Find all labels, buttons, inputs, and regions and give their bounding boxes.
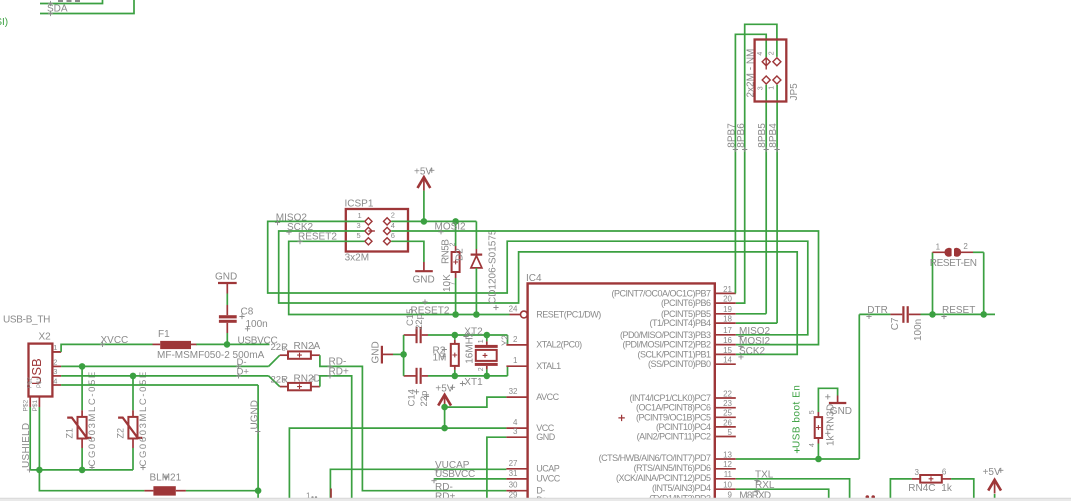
origin cross near RESET2 label — [422, 299, 427, 304]
svg-text:D-: D- — [536, 486, 545, 496]
wire Z2 bottom to USHIELD rail — [132, 448, 134, 470]
resistor RN5B top stub — [455, 246, 457, 252]
header JP5 body — [755, 40, 787, 102]
svg-text:DTR: DTR — [867, 305, 888, 316]
svg-text:6: 6 — [391, 231, 395, 240]
varistor Z1 top pin stub — [81, 410, 83, 417]
svg-text:SCK2: SCK2 — [739, 346, 766, 357]
svg-text:(PCINT6)PB6: (PCINT6)PB6 — [661, 298, 711, 308]
ground stub at RN3D — [837, 396, 839, 404]
IC4 pin 2 stub (XTAL2(PC0)) — [506, 344, 527, 346]
wire DTR to C7 — [859, 313, 890, 315]
svg-text:(SS/PCINT0)PB0: (SS/PCINT0)PB0 — [648, 359, 711, 369]
svg-text:24: 24 — [509, 305, 518, 314]
svg-text:8PB4: 8PB4 — [768, 123, 779, 148]
capacitor C8 top stub — [226, 305, 228, 315]
wire GND branch to crystal caps — [393, 353, 404, 355]
pad 3 of JP5 — [762, 76, 770, 84]
wire RD- from RN2A — [320, 355, 507, 491]
svg-text:8PB5: 8PB5 — [757, 123, 768, 148]
capacitor C7 right stub — [909, 313, 921, 315]
IC4 pin 21 stub ((PCINT7/OC0A/OC1C)PB7) — [715, 292, 736, 294]
resistor RN3D body — [815, 417, 822, 438]
wire RN3D bottom to DTR net — [817, 444, 819, 460]
label origin cross RESET2 — [297, 239, 302, 244]
wire Z1 bottom to USHIELD rail — [81, 448, 83, 470]
svg-text:RN3D: RN3D — [826, 404, 837, 431]
svg-text:1: 1 — [358, 211, 362, 220]
varistor Z1 bottom pin stub — [81, 439, 83, 449]
svg-text:1: 1 — [513, 356, 518, 365]
svg-text:2: 2 — [478, 367, 485, 371]
IC4 pin 16 stub ((PDI/MOSI/PCINT2)PB2) — [715, 344, 736, 346]
junction XT2 at R2 — [452, 332, 459, 339]
svg-text:16MHz: 16MHz — [465, 332, 476, 364]
svg-text:SDA: SDA — [47, 4, 68, 15]
svg-text:25: 25 — [723, 409, 732, 418]
svg-text:3x2M: 3x2M — [345, 252, 369, 263]
wire UGND from X2 pin4 — [61, 384, 258, 386]
svg-text:(PCINT10)PC4: (PCINT10)PC4 — [656, 422, 711, 432]
svg-text:100n: 100n — [913, 319, 924, 341]
origin cross C8 — [239, 314, 244, 319]
wire DTR riser up — [858, 314, 860, 459]
wire 8PB7 from pin21 to JP5 pad4 — [735, 34, 766, 293]
svg-text:11: 11 — [724, 470, 733, 479]
svg-text:RESET: RESET — [942, 305, 975, 316]
wire D+ to Z2 top — [132, 376, 134, 410]
svg-text:1: 1 — [478, 339, 485, 343]
label origin cross UGND — [255, 429, 260, 434]
wire RN4C right leg — [951, 479, 974, 501]
label origin cross USHIELD — [27, 467, 32, 472]
wire XT2 to R2 — [454, 335, 456, 340]
junction XT1 at crystal — [484, 373, 491, 380]
svg-text:UCAP: UCAP — [536, 464, 560, 474]
wire XT2 to crystal pin1 — [486, 335, 488, 341]
crystal Y2 top plate — [475, 345, 498, 348]
svg-text:27: 27 — [509, 459, 518, 468]
junction D- at Z1 — [79, 363, 86, 370]
svg-text:4: 4 — [53, 376, 57, 385]
wire SCL net (top-left, cropped) — [40, 0, 103, 4]
junction RESET right — [980, 311, 987, 318]
wire +5V to RN5B top — [455, 221, 457, 246]
svg-text:(XCK/AINA/PCINT12)PD5: (XCK/AINA/PCINT12)PD5 — [616, 473, 711, 483]
IC4 pin 4 stub (VCC) — [506, 427, 527, 429]
svg-text:USB-B_TH: USB-B_TH — [3, 315, 50, 326]
pad 4 of ICSP1 — [384, 227, 391, 234]
svg-text:3: 3 — [282, 377, 286, 384]
IC4 pin 17 stub ((PD0/MISO/PCINT3)PB3) — [715, 334, 736, 336]
wire XT1 to IC pin1 — [507, 366, 509, 376]
pad 4 pin line — [765, 57, 767, 69]
wire +5V rail from ICSP pad2 — [391, 220, 476, 222]
svg-text:P$1: P$1 — [37, 377, 43, 388]
origin cross USB boot En (green) — [794, 448, 799, 453]
cropped label fragments at top edge — [58, 0, 80, 2]
svg-text:26: 26 — [723, 418, 732, 427]
svg-text:3: 3 — [513, 427, 518, 436]
svg-text:C7: C7 — [890, 317, 901, 330]
resistor RN5B body — [452, 252, 460, 272]
svg-text:2: 2 — [391, 211, 395, 220]
svg-text:(AIN2/PCINT11)PC2: (AIN2/PCINT11)PC2 — [637, 432, 711, 442]
svg-text:XTAL2(PC0): XTAL2(PC0) — [536, 340, 582, 350]
varistor Z1 slash — [67, 418, 91, 438]
capacitor C15 plates — [416, 327, 418, 343]
capacitor C14 right stub — [422, 375, 428, 377]
svg-text:RESET(PC1/DW): RESET(PC1/DW) — [536, 309, 601, 319]
pin 1 stub of X2 — [52, 351, 61, 353]
origin cross CD1206 label — [493, 305, 498, 310]
IC4 pin 30 stub (D-) — [506, 490, 527, 492]
junction RESET2 at D2 — [473, 311, 480, 318]
resistor RN4C right stub — [942, 478, 951, 480]
svg-text:16: 16 — [723, 336, 732, 345]
IC4 pin 24 stub (RESET(PC1/DW)) — [510, 314, 521, 316]
wire D2 anode to RESET2 — [475, 268, 477, 315]
wire R2 to XT1 — [454, 370, 456, 376]
wire pin19 horizontal — [736, 313, 766, 315]
svg-text:(INT5/AIN3)PD4: (INT5/AIN3)PD4 — [652, 483, 711, 493]
IC U1 ATmega16U2 body IC4 — [528, 283, 715, 501]
svg-text:17: 17 — [723, 326, 732, 335]
jumper RESET-EN right pad — [954, 248, 961, 257]
svg-text:8PB6: 8PB6 — [736, 123, 747, 148]
IC4 pin 12 stub ((RTS/AIN5/INT6)PD6) — [715, 468, 736, 470]
junction at GND branch — [400, 351, 407, 358]
svg-text:GND: GND — [413, 275, 435, 286]
svg-text:1M: 1M — [433, 353, 447, 364]
svg-text:RXL: RXL — [755, 480, 775, 491]
svg-text:Z1: Z1 — [65, 428, 75, 439]
svg-text:3: 3 — [915, 468, 920, 477]
svg-text:23: 23 — [723, 399, 732, 408]
junction DTR at RN3D — [815, 456, 822, 463]
ground symbol at RN3D — [829, 402, 846, 404]
capacitor C7 plates — [902, 306, 904, 323]
junction +5V at arrow — [421, 218, 428, 225]
wire XT2 rail — [404, 334, 416, 336]
fuse F1 left stub — [153, 343, 161, 345]
wire 8PB4 from pin18 to JP5 pad1 — [776, 85, 778, 323]
capacitor C7 left stub — [890, 313, 902, 315]
wire DTR from pin13 — [736, 458, 860, 460]
IC4 pin 9 stub ((TXD1/PCINT)PD3) — [715, 498, 736, 500]
svg-text:C8: C8 — [241, 307, 254, 318]
capacitor C8 bottom stub — [226, 323, 228, 333]
svg-text:(RTS/AIN5/INT6)PD6: (RTS/AIN5/INT6)PD6 — [634, 463, 711, 473]
junction XT1 at R2 — [452, 373, 459, 380]
label origin cross VUCAP — [434, 467, 439, 472]
label origin cross USBVCC — [431, 478, 436, 483]
svg-text:RN2A: RN2A — [294, 341, 321, 352]
svg-text:1k: 1k — [941, 483, 953, 494]
wire RXL from pin10 — [736, 489, 829, 501]
origin cross on BLM21 — [163, 474, 168, 479]
ground symbol at crystal (vertical bar) — [381, 346, 383, 364]
wire VCC rail from bottom riser — [289, 428, 506, 501]
wire RD+ from RN2D — [320, 376, 507, 500]
ground symbol above C8 — [218, 282, 237, 284]
svg-text:(PCINT9/OC1B)PC5: (PCINT9/OC1B)PC5 — [636, 412, 711, 422]
IC4 pin 31 stub (UVCC) — [506, 478, 527, 480]
svg-text:(T1/PCINT4)PB4: (T1/PCINT4)PB4 — [649, 318, 711, 328]
resistor RN2D right stub — [311, 386, 320, 388]
svg-text:22: 22 — [723, 389, 732, 398]
wire USBVCC to UVCC pin — [434, 478, 506, 480]
jumper RESET-EN pin2 wire — [959, 251, 973, 253]
svg-text:4: 4 — [513, 418, 518, 427]
wire pin18 horizontal — [736, 322, 777, 324]
svg-text:XTAL1: XTAL1 — [536, 361, 561, 371]
wire C8 bottom to USBVCC rail — [226, 333, 228, 344]
pin 4 stub of X2 — [52, 384, 61, 386]
svg-text:UVCC: UVCC — [536, 474, 561, 484]
IC4 pin 1 stub (XTAL1) — [506, 365, 527, 367]
header ICSP1 body — [346, 209, 408, 252]
svg-text:GND: GND — [536, 432, 556, 442]
wire +5V down to crop — [994, 494, 996, 501]
svg-text:18: 18 — [723, 315, 732, 324]
resistor RN3D bottom stub — [817, 438, 819, 444]
svg-text:XT1: XT1 — [464, 377, 483, 388]
svg-text:1: 1 — [936, 243, 941, 252]
cropped component marks bottom right — [866, 495, 870, 499]
svg-text:2: 2 — [449, 243, 456, 247]
wire GND pin3 riser — [487, 437, 507, 501]
wire XT1 rail — [404, 375, 416, 377]
label origin cross SCK2 — [286, 230, 291, 235]
wire SDA net (top-left, cropped) — [40, 0, 134, 14]
wire XVCC from X2 pin1 — [52, 351, 61, 353]
fuse F1 body — [160, 341, 191, 349]
svg-text:31: 31 — [509, 469, 518, 478]
pad 2 of JP5 — [773, 58, 781, 66]
IC4 pin 23 stub ((OC1A/PCINT8)PC6) — [715, 407, 736, 409]
varistor Z2 slash — [118, 418, 142, 438]
resistor R2 bottom stub — [454, 366, 456, 370]
svg-text:1: 1 — [53, 343, 57, 352]
svg-text:RN2D: RN2D — [294, 374, 321, 385]
ferrite bead L1 left stub — [144, 490, 153, 492]
pad 3 of ICSP1 — [365, 227, 372, 234]
wire ICSP pad6 to ground — [391, 241, 424, 262]
junction +5V at RN5B — [452, 218, 459, 225]
svg-text:(PDI/MOSI/PCINT2)PB2: (PDI/MOSI/PCINT2)PB2 — [622, 340, 711, 350]
wire USHIELD from P$2 down — [29, 407, 31, 470]
shield pin P$1 stub — [38, 397, 40, 408]
svg-text:30: 30 — [509, 481, 518, 490]
pad 5 of ICSP1 — [365, 238, 372, 245]
svg-text:GND: GND — [215, 272, 237, 283]
IC4 pin 14 stub ((SS/PCINT0)PB0) — [715, 363, 736, 365]
svg-text:IC4: IC4 — [526, 273, 542, 284]
resistor R2 body — [451, 344, 459, 366]
IC4 pin 18 stub ((T1/PCINT4)PB4) — [715, 322, 736, 324]
ferrite bead BLM21 body — [153, 486, 175, 495]
svg-text:RN5B: RN5B — [441, 239, 452, 264]
svg-text:D2: D2 — [455, 248, 466, 261]
varistor Z1 body — [78, 417, 87, 439]
wire USHIELD down to BLM21 row — [39, 470, 144, 491]
wire RESET-EN left leg — [932, 252, 934, 314]
window edge strip at bottom (cropped screenshot artifact) — [0, 498, 1071, 501]
svg-text:4: 4 — [391, 221, 395, 230]
IC4 pin 22 stub ((INT4/ICP1/CLK0)PC7) — [715, 397, 736, 399]
ground stub at ICSP — [423, 262, 425, 271]
svg-text:2: 2 — [963, 242, 968, 251]
svg-text:5: 5 — [357, 231, 361, 240]
IC4 pin 29 stub (D+) — [506, 499, 527, 501]
label origin cross MOSI2 — [438, 229, 443, 234]
svg-text:MOSI2: MOSI2 — [435, 222, 467, 233]
svg-text:13: 13 — [723, 450, 732, 459]
diode D2 cathode stub — [475, 249, 477, 256]
wire TXL from pin11 — [736, 479, 850, 501]
svg-text:RESET-EN: RESET-EN — [930, 258, 977, 269]
wire USBVCC rail — [196, 343, 269, 345]
label origin cross XVCC — [100, 342, 105, 347]
wire M8RXD from pin9 — [736, 498, 828, 500]
varistor Z2 bottom pin stub — [132, 439, 134, 449]
wire USHIELD rail — [30, 469, 133, 471]
pin 2 stub of X2 — [52, 365, 61, 367]
wire D- to Z1 top — [81, 366, 83, 410]
svg-text:8: 8 — [282, 346, 286, 353]
wire VUCAP to UCAP pin — [330, 469, 506, 501]
svg-text:1: 1 — [768, 86, 775, 90]
ground stub to C8 — [226, 283, 228, 294]
fuse F1 right stub — [191, 343, 197, 345]
junction D+ at Z2 — [130, 373, 137, 380]
svg-text:32: 32 — [509, 387, 518, 396]
origin cross CG0603 Z1 — [89, 465, 94, 470]
svg-text:5: 5 — [728, 428, 733, 437]
wire left link C15/C14 — [403, 335, 405, 376]
diode D2 cathode bar — [471, 254, 483, 256]
wire D+ from X2 pin3 — [61, 375, 269, 377]
svg-text:3: 3 — [357, 221, 361, 230]
shield pin P$2 stub — [29, 397, 31, 408]
wire USHIELD from P$1 down — [38, 407, 40, 470]
IC4 pin 13 stub ((CTS/HWB/AIN6/TO/INT7)PD7) — [715, 458, 736, 460]
label origin cross MISO2 — [275, 220, 280, 225]
svg-text:15: 15 — [723, 346, 732, 355]
connector X2 body (USB-B_TH) — [29, 344, 53, 397]
wire D+ diagonal down to RN2D — [269, 376, 280, 387]
resistor RN3D top stub — [817, 412, 819, 417]
resistor RN5B bottom stub — [455, 272, 457, 278]
wire XT2 to IC pin2 — [507, 335, 509, 345]
capacitor C15 right stub — [422, 334, 428, 336]
wire MISO2 net — [268, 221, 808, 334]
pad 1 of ICSP1 — [365, 218, 372, 225]
svg-text:19: 19 — [723, 305, 732, 314]
svg-text:(PCINT7/OC0A/OC1C)PB7: (PCINT7/OC0A/OC1C)PB7 — [611, 288, 711, 298]
svg-text:RESET2: RESET2 — [298, 232, 337, 243]
wire RN3D top to GND — [818, 388, 837, 412]
crystal pin1 stub — [486, 341, 488, 345]
svg-text:4: 4 — [757, 52, 764, 56]
ground stub at crystal — [383, 353, 393, 355]
junction USBVCC at C8 — [224, 341, 231, 348]
svg-text:12: 12 — [723, 460, 732, 469]
resistor R2 top stub — [454, 340, 456, 344]
wire 8PB6 from pin20 to JP5 pad2 — [736, 24, 777, 303]
junction on USHIELD rail at P$1 — [36, 467, 43, 474]
resistor RN2A body — [288, 351, 311, 358]
svg-text:(PD0/MISO/PCINT3)PB3: (PD0/MISO/PCINT3)PB3 — [620, 330, 711, 340]
junction +5V at AVCC branch — [441, 404, 448, 411]
resistor RN2D left stub — [280, 386, 288, 388]
svg-text:CD1206-S01575: CD1206-S01575 — [488, 229, 499, 304]
svg-text:21: 21 — [723, 285, 732, 294]
IC4 pin 26 stub ((PCINT10)PC4) — [715, 426, 736, 428]
wire D- from X2 pin2 — [61, 365, 269, 367]
svg-text:P$1: P$1 — [32, 400, 39, 412]
IC4 pin 27 stub (UCAP) — [506, 468, 527, 470]
svg-text:(SI): (SI) — [0, 17, 8, 28]
capacitor C8 plates — [219, 315, 237, 318]
svg-text:6: 6 — [942, 468, 947, 477]
svg-text:(CTS/HWB/AIN6/TO/INT7)PD7: (CTS/HWB/AIN6/TO/INT7)PD7 — [599, 453, 711, 463]
svg-text:20: 20 — [723, 295, 732, 304]
svg-text:1: 1 — [311, 344, 315, 351]
junction UGND at riser — [255, 487, 262, 494]
pad 3 pin line — [368, 230, 375, 232]
varistor Z2 top pin stub — [132, 410, 134, 417]
svg-text:4: 4 — [311, 376, 315, 383]
IC4 pin 32 stub (AVCC) — [506, 396, 527, 398]
wire AVCC branch — [445, 397, 507, 407]
svg-text:GND: GND — [371, 341, 382, 363]
junction on USHIELD rail at Z1 — [79, 467, 86, 474]
svg-text:(SCLK/PCINT1)PB1: (SCLK/PCINT1)PB1 — [637, 349, 711, 359]
svg-text:TXL: TXL — [755, 470, 774, 481]
resistor RN4C left stub — [912, 478, 920, 480]
svg-text:10: 10 — [723, 481, 732, 490]
svg-text:UGND: UGND — [250, 400, 261, 429]
label origin cross SCL — [48, 1, 53, 6]
ground symbol at ICSP — [415, 270, 433, 272]
svg-text:ICSP1: ICSP1 — [345, 199, 374, 210]
wire UGND BLM21 to riser — [176, 490, 186, 492]
varistor Z2 body — [128, 417, 137, 439]
wire MOSI2 net — [391, 231, 818, 345]
svg-text:(OC1A/PCINT8)PC6: (OC1A/PCINT8)PC6 — [636, 403, 711, 413]
svg-text:3: 3 — [757, 86, 764, 90]
IC4 pin 5 stub ((AIN2/PCINT11)PC2) — [715, 436, 736, 438]
junction RESET left — [929, 311, 936, 318]
svg-text:(INT4/ICP1/CLK0)PC7: (INT4/ICP1/CLK0)PC7 — [629, 393, 711, 403]
crystal Y2 body — [476, 350, 497, 361]
wire +5V to VCC rail — [444, 405, 446, 429]
svg-text:2: 2 — [769, 51, 776, 55]
origin cross CG0603 Z2 — [140, 465, 145, 470]
svg-text:1k: 1k — [826, 434, 837, 446]
label origin cross D- — [236, 364, 241, 369]
svg-text:2: 2 — [513, 335, 518, 344]
svg-text:2x2M - NM: 2x2M - NM — [745, 49, 756, 98]
pad 6 of ICSP1 — [384, 238, 391, 245]
wire SCK2 net — [279, 231, 798, 354]
wire RN5B bottom to RESET2 — [455, 278, 457, 315]
pad 1 of JP5 — [773, 76, 781, 84]
svg-text:F1: F1 — [158, 329, 170, 340]
wire GND to C8 top — [226, 294, 228, 306]
